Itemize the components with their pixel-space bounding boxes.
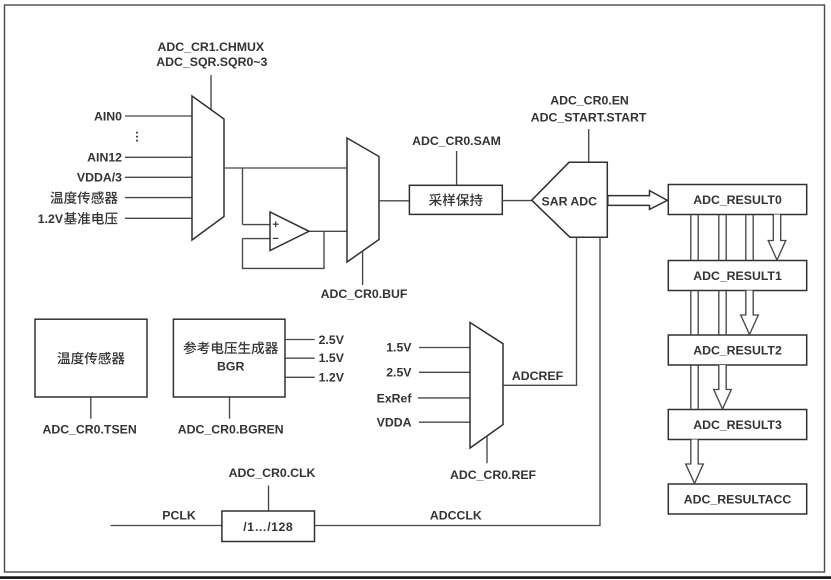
- svg-text:ADC_CR0.CLK: ADC_CR0.CLK: [229, 466, 316, 480]
- wire MUX2 output: [379, 200, 409, 202]
- svg-text:ExRef: ExRef: [377, 391, 413, 405]
- wire ExRef input: [418, 397, 470, 399]
- op-amp buffer: [270, 212, 309, 251]
- arrow into ADC_RESULT3: [714, 365, 732, 409]
- arrow into ADC_RESULT2: [741, 291, 759, 335]
- wire VDDA/3 input: [125, 176, 192, 178]
- wire MUX1 output: [224, 167, 347, 169]
- wire feedback loop: [323, 231, 325, 268]
- wire temp-sensor input: [125, 197, 192, 199]
- label 采样保持: [429, 193, 483, 206]
- wire ADCCLK net: [315, 237, 601, 526]
- svg-text:/1…/128: /1…/128: [243, 520, 293, 534]
- svg-text:ADC_CR0.EN: ADC_CR0.EN: [550, 94, 629, 108]
- wire VDDA input: [419, 421, 470, 423]
- svg-text:AIN12: AIN12: [87, 151, 122, 165]
- svg-text:BGR: BGR: [217, 359, 244, 373]
- svg-text:1.5V: 1.5V: [386, 340, 412, 354]
- svg-text:ADC_SQR.SQR0~3: ADC_SQR.SQR0~3: [156, 55, 267, 69]
- shaft result copy arrow 2 gap 1: [718, 215, 720, 261]
- bottom rule: [0, 576, 831, 579]
- wire TSEN control: [90, 397, 92, 419]
- block SAR ADC: [532, 162, 608, 237]
- label 温度传感器 input: [50, 191, 117, 204]
- svg-text:ADC_RESULT0: ADC_RESULT0: [693, 193, 782, 207]
- svg-text:VDDA: VDDA: [377, 416, 412, 430]
- svg-text:ADC_CR0.SAM: ADC_CR0.SAM: [412, 134, 501, 148]
- svg-text:ADC_RESULTACC: ADC_RESULTACC: [684, 492, 792, 506]
- register ADC_RESULT1: [668, 261, 806, 291]
- svg-text:ADC_RESULT2: ADC_RESULT2: [693, 343, 782, 357]
- label 温度传感器 box: [57, 352, 124, 365]
- register ADC_RESULT2: [668, 335, 806, 365]
- block clock divider: [222, 511, 315, 542]
- op-amp - pin: [273, 237, 279, 239]
- svg-text:ADC_CR0.BUF: ADC_CR0.BUF: [321, 287, 408, 301]
- svg-text:VDDA/3: VDDA/3: [77, 171, 122, 185]
- shaft result copy arrow 3 gap 1: [745, 215, 747, 261]
- svg-text:ADC_CR0.TSEN: ADC_CR0.TSEN: [42, 422, 136, 436]
- svg-text:AIN0: AIN0: [94, 109, 122, 123]
- wire SAM control: [456, 151, 458, 185]
- op-amp + pin: [273, 221, 279, 227]
- svg-text:ADC_CR1.CHMUX: ADC_CR1.CHMUX: [158, 40, 265, 54]
- svg-text:ADC_CR0.BGREN: ADC_CR0.BGREN: [178, 422, 284, 436]
- svg-text:ADC_CR0.REF: ADC_CR0.REF: [450, 468, 537, 482]
- svg-text:1.2V: 1.2V: [38, 212, 64, 226]
- register ADC_RESULT3: [668, 410, 806, 440]
- block arrow SAR to RESULT0: [608, 191, 668, 210]
- shaft result copy arrow 1 gap 2: [690, 291, 692, 336]
- wire BGR 1.5V output: [285, 357, 315, 359]
- svg-text:ADC_RESULT1: ADC_RESULT1: [693, 269, 782, 283]
- svg-text:2.5V: 2.5V: [319, 333, 345, 347]
- wire sample-hold output: [502, 200, 531, 202]
- wire MUX2 control: [362, 251, 364, 285]
- block BGR reference generator: [173, 319, 285, 397]
- wire PCLK: [111, 525, 222, 527]
- wire 2.5V ref input: [419, 371, 470, 373]
- wire BGREN control: [229, 397, 231, 419]
- wire BGR 2.5V output: [285, 339, 315, 341]
- wire SAR control: [588, 129, 590, 163]
- wire MUX1 control: [210, 75, 212, 111]
- wire ADCREF net: [503, 237, 577, 386]
- shaft result copy arrow 2 gap 2: [718, 291, 720, 336]
- wire buffer output: [309, 230, 347, 232]
- svg-text:PCLK: PCLK: [162, 509, 196, 523]
- svg-text:ADCREF: ADCREF: [512, 369, 564, 383]
- shaft result copy arrow 1 gap 1: [690, 215, 692, 261]
- wire AIN0 input: [125, 115, 192, 117]
- wire 1.5V ref input: [419, 347, 470, 349]
- svg-text:1.5V: 1.5V: [319, 351, 345, 365]
- arrow into ADC_RESULT1: [768, 215, 786, 261]
- wire 1.2V-ref input: [125, 217, 192, 219]
- svg-text:ADCCLK: ADCCLK: [430, 509, 482, 523]
- ellipsis dots: [136, 132, 138, 142]
- register ADC_RESULTACC: [668, 484, 806, 514]
- wire CLK control: [268, 486, 270, 512]
- wire REF control: [486, 436, 488, 463]
- shaft result copy arrow 1 gap 3: [690, 365, 692, 410]
- label 参考电压生成器: [184, 341, 278, 354]
- svg-text:ADC_RESULT3: ADC_RESULT3: [693, 418, 782, 432]
- block temperature sensor: [35, 319, 147, 397]
- mux MUX1 channel select: [192, 96, 224, 240]
- wire BGR 1.2V output: [285, 376, 315, 378]
- svg-text:2.5V: 2.5V: [386, 366, 412, 380]
- mux MUX2 buffer bypass: [347, 138, 379, 262]
- register ADC_RESULT0: [668, 185, 806, 215]
- mux MUX3 reference select: [470, 323, 503, 449]
- wire AIN12 input: [125, 156, 192, 158]
- svg-text:ADC_START.START: ADC_START.START: [531, 111, 647, 125]
- svg-text:SAR ADC: SAR ADC: [542, 195, 598, 209]
- block sample-and-hold: [409, 185, 502, 214]
- arrow into ADC_RESULTACC: [686, 440, 704, 484]
- label 基准电压: [64, 212, 117, 225]
- wire branch to buffer + input: [242, 168, 244, 225]
- svg-text:1.2V: 1.2V: [319, 371, 345, 385]
